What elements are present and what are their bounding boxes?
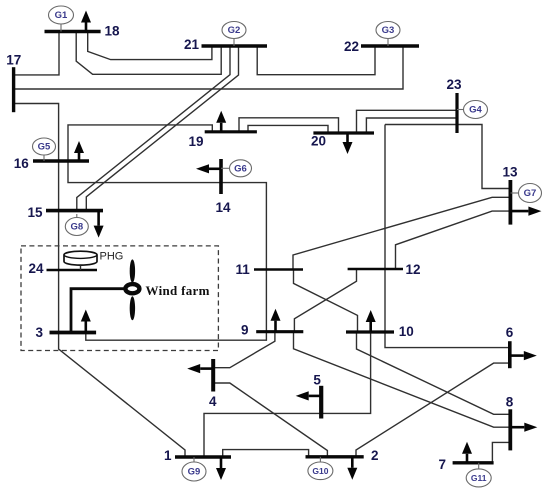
svg-text:G9: G9 <box>188 467 201 478</box>
svg-text:14: 14 <box>216 200 232 215</box>
svg-text:5: 5 <box>313 372 321 387</box>
svg-text:20: 20 <box>311 134 326 149</box>
svg-text:10: 10 <box>399 324 414 339</box>
svg-text:G7: G7 <box>524 188 537 199</box>
svg-text:17: 17 <box>6 52 21 67</box>
svg-text:G11: G11 <box>471 473 487 483</box>
svg-text:1: 1 <box>164 448 172 463</box>
svg-text:23: 23 <box>447 77 463 92</box>
svg-text:G2: G2 <box>228 25 241 36</box>
svg-text:G3: G3 <box>382 25 395 36</box>
svg-text:12: 12 <box>406 262 421 277</box>
svg-text:24: 24 <box>29 261 45 276</box>
svg-text:7: 7 <box>439 457 447 472</box>
svg-text:13: 13 <box>503 165 519 180</box>
svg-text:G8: G8 <box>70 222 83 233</box>
svg-text:16: 16 <box>14 156 30 171</box>
svg-text:6: 6 <box>506 325 514 340</box>
svg-text:21: 21 <box>184 37 200 52</box>
svg-text:8: 8 <box>506 395 514 410</box>
svg-text:3: 3 <box>36 325 44 340</box>
svg-text:4: 4 <box>209 394 217 409</box>
svg-text:11: 11 <box>236 262 251 277</box>
svg-text:G5: G5 <box>38 142 51 153</box>
svg-text:15: 15 <box>28 205 44 220</box>
svg-text:G4: G4 <box>469 105 482 116</box>
svg-text:9: 9 <box>241 323 249 338</box>
svg-text:G6: G6 <box>234 164 247 175</box>
svg-text:G1: G1 <box>55 10 68 21</box>
svg-text:2: 2 <box>371 448 379 463</box>
svg-text:22: 22 <box>344 39 359 54</box>
svg-text:19: 19 <box>189 134 204 149</box>
svg-text:PHG: PHG <box>100 251 124 263</box>
svg-text:Wind farm: Wind farm <box>146 283 210 298</box>
svg-text:18: 18 <box>105 24 121 39</box>
svg-text:G10: G10 <box>312 466 328 476</box>
